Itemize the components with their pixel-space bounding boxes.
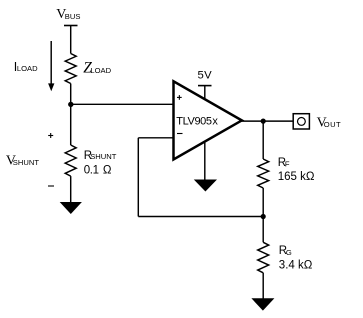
- svg-text:LOAD: LOAD: [17, 64, 38, 73]
- svg-text:TLV905x: TLV905x: [176, 115, 218, 127]
- svg-text:BUS: BUS: [65, 12, 81, 21]
- svg-text:165 kΩ: 165 kΩ: [278, 171, 315, 183]
- svg-text:5V: 5V: [198, 69, 213, 81]
- svg-text:3.4 kΩ: 3.4 kΩ: [279, 259, 313, 271]
- svg-text:SHUNT: SHUNT: [13, 158, 40, 167]
- svg-text:OUT: OUT: [324, 120, 341, 129]
- svg-text:F: F: [285, 159, 290, 168]
- svg-text:LOAD: LOAD: [90, 66, 111, 75]
- svg-text:SHUNT: SHUNT: [90, 152, 117, 161]
- svg-text:0.1 Ω: 0.1 Ω: [84, 165, 112, 177]
- svg-text:G: G: [286, 248, 292, 257]
